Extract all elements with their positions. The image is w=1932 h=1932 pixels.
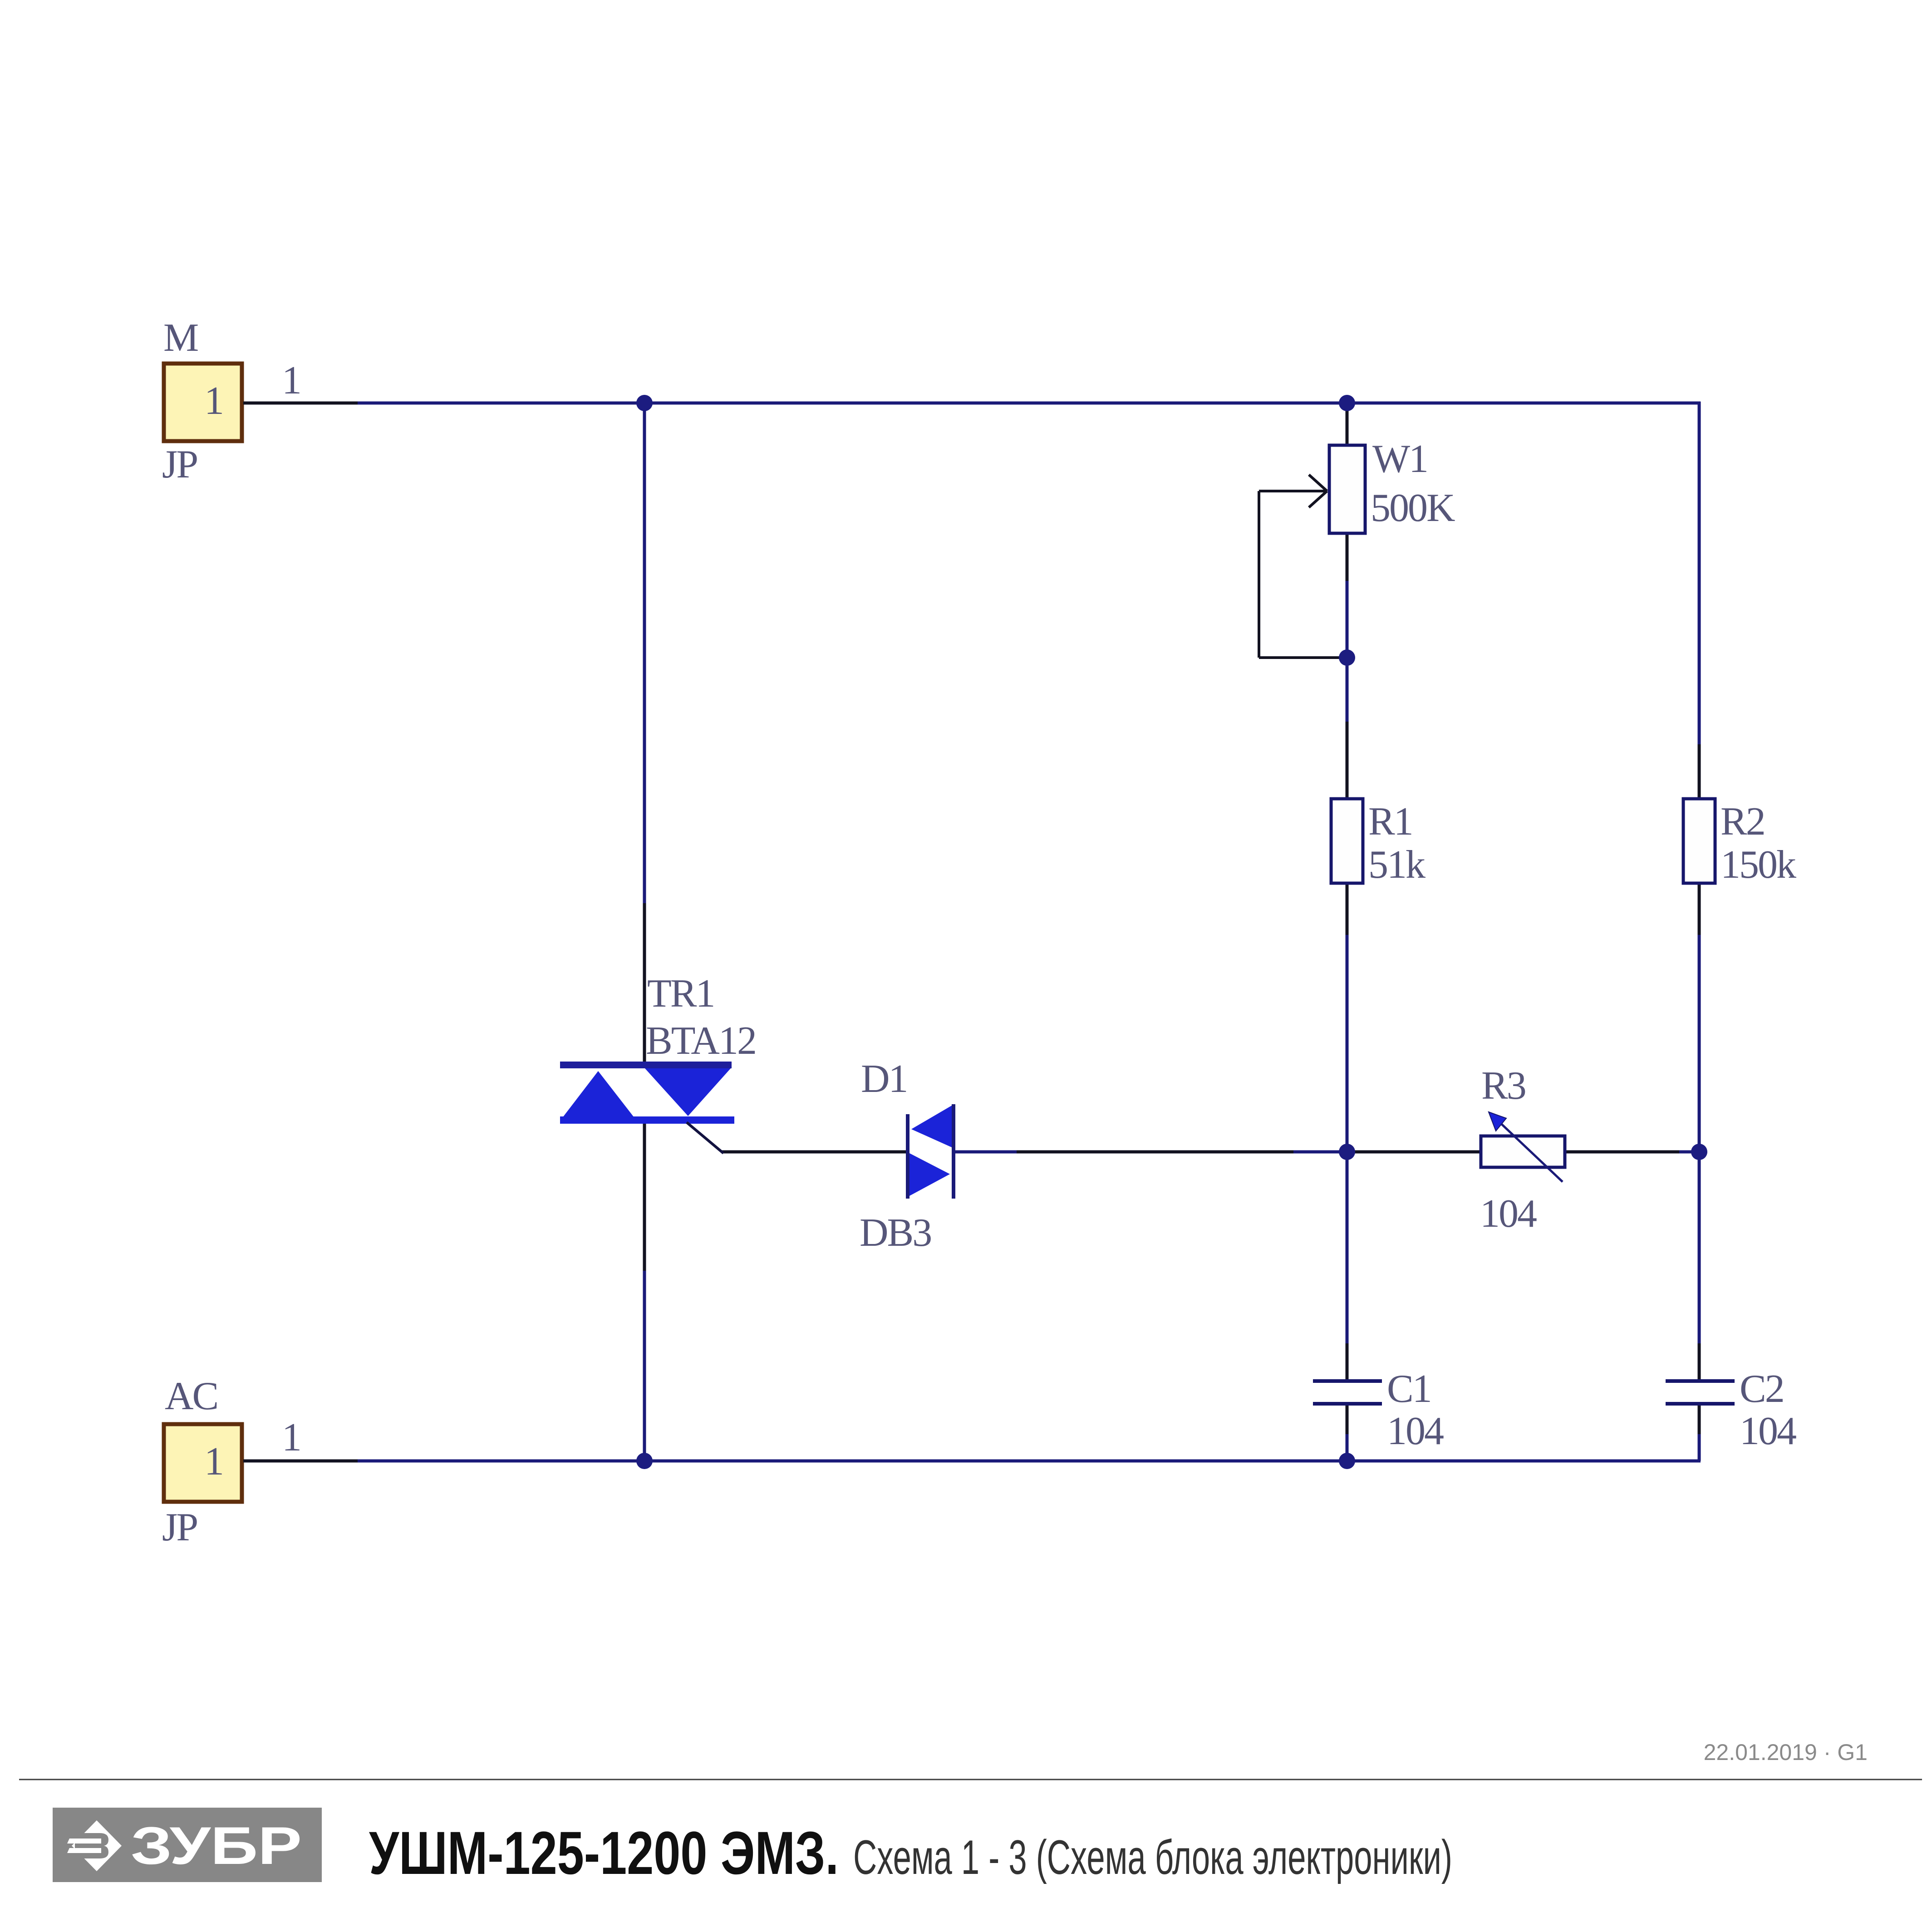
connector JP (M) bbox=[164, 364, 358, 441]
svg-text:104: 104 bbox=[1740, 1409, 1796, 1453]
diac D1 left electrode bar bbox=[906, 1114, 909, 1199]
svg-text:ЗУБР: ЗУБР bbox=[131, 1816, 302, 1875]
junction node: bottom wire / C1 bbox=[1339, 1453, 1355, 1469]
svg-text:W1: W1 bbox=[1372, 437, 1427, 481]
svg-text:TR1: TR1 bbox=[647, 972, 714, 1016]
junction node: R3 / right rail bbox=[1691, 1144, 1707, 1160]
svg-text:DB3: DB3 bbox=[860, 1211, 931, 1255]
svg-text:C1: C1 bbox=[1387, 1367, 1431, 1411]
svg-text:JP: JP bbox=[162, 1505, 197, 1549]
svg-text:AC: AC bbox=[165, 1374, 217, 1418]
wire: left rail vertical (M/AC column) bbox=[643, 403, 646, 1461]
svg-text:D1: D1 bbox=[861, 1057, 907, 1101]
junction node: top wire / left rail bbox=[636, 395, 653, 411]
svg-text:22.01.2019 · G1: 22.01.2019 · G1 bbox=[1704, 1740, 1868, 1765]
svg-text:M: M bbox=[163, 316, 198, 360]
diac D1 upper triangle bbox=[911, 1106, 952, 1147]
triac TR1 lower triangle bbox=[561, 1071, 636, 1120]
svg-text:150k: 150k bbox=[1721, 843, 1796, 887]
junction node: W1 wiper return bbox=[1339, 649, 1355, 666]
W1 wiper return wire bbox=[1259, 491, 1347, 658]
junction node: bottom wire / left rail bbox=[636, 1453, 653, 1469]
triac TR1 MT1 bar bbox=[560, 1116, 734, 1124]
svg-text:104: 104 bbox=[1387, 1409, 1444, 1453]
wire: top net from M to right rail bbox=[358, 402, 1701, 405]
svg-text:R1: R1 bbox=[1368, 800, 1412, 844]
svg-text:500K: 500K bbox=[1371, 486, 1455, 530]
svg-text:1: 1 bbox=[204, 379, 223, 423]
potentiometer W1 body bbox=[1329, 445, 1365, 533]
diac D1 right electrode bar bbox=[952, 1104, 955, 1199]
diac D1 lower triangle bbox=[909, 1153, 950, 1196]
svg-text:УШМ-125-1200 ЭМЗ.: УШМ-125-1200 ЭМЗ. bbox=[369, 1819, 839, 1887]
ZUBR logo diamond icon bbox=[67, 1820, 122, 1871]
wire: bottom net from AC to C2 bbox=[358, 1460, 1701, 1463]
capacitor C1 top plate bbox=[1313, 1379, 1382, 1383]
footer separator line bbox=[19, 1779, 1922, 1780]
svg-text:1: 1 bbox=[204, 1440, 223, 1484]
svg-text:R2: R2 bbox=[1721, 800, 1765, 844]
triac TR1 gate lead bbox=[687, 1122, 723, 1153]
svg-text:C2: C2 bbox=[1740, 1367, 1784, 1411]
ZUBR logo box bbox=[53, 1808, 322, 1882]
capacitor C1 bottom plate bbox=[1313, 1402, 1382, 1406]
triac TR1 MT2 bar bbox=[560, 1062, 732, 1068]
capacitor C2 bottom plate bbox=[1666, 1402, 1735, 1406]
svg-text:BTA12: BTA12 bbox=[646, 1019, 756, 1063]
wire: gate net row (triac gate - D1 - node - R3 - right rail) bbox=[722, 1150, 1699, 1154]
triac TR1 upper triangle bbox=[645, 1068, 731, 1116]
junction node: gate net / middle rail bbox=[1339, 1144, 1355, 1160]
junction node: top wire / W1 bbox=[1339, 395, 1355, 411]
svg-text:R3: R3 bbox=[1481, 1064, 1525, 1108]
svg-text:1: 1 bbox=[282, 359, 300, 403]
W1 wiper arrow bbox=[1259, 475, 1327, 507]
resistor R2 body bbox=[1683, 799, 1715, 883]
wire: right rail (R2/C2 column) bbox=[1698, 402, 1701, 1461]
wire: middle rail (W1/R1/C1 column) bbox=[1346, 403, 1349, 1461]
varistor R3 arrow bbox=[1489, 1112, 1563, 1182]
svg-text:51k: 51k bbox=[1368, 843, 1426, 887]
svg-text:JP: JP bbox=[162, 442, 197, 487]
svg-text:1: 1 bbox=[282, 1416, 300, 1460]
resistor R1 body bbox=[1331, 799, 1363, 883]
svg-text:Схема 1 - 3 (Схема блока элект: Схема 1 - 3 (Схема блока электроники) bbox=[853, 1830, 1452, 1884]
varistor R3 body bbox=[1481, 1136, 1565, 1167]
connector JP (AC) bbox=[164, 1424, 358, 1502]
svg-text:104: 104 bbox=[1480, 1192, 1537, 1236]
capacitor C2 top plate bbox=[1666, 1379, 1735, 1383]
